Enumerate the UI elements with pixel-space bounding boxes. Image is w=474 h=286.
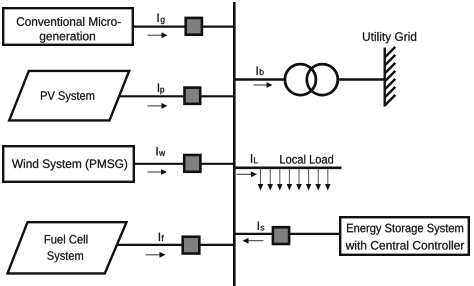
parallelogram PV System xyxy=(9,71,129,121)
transformer T1 (two overlapping circles) xyxy=(285,64,338,95)
wire Is (energy storage to bus) xyxy=(234,233,340,235)
breaker square Is xyxy=(273,227,289,244)
arrow IL xyxy=(237,171,258,177)
label Ib xyxy=(257,67,264,76)
arrow Is (pointing left) xyxy=(243,238,264,244)
label Is xyxy=(258,222,265,231)
label If xyxy=(159,233,164,241)
bus (main vertical AC bus line) xyxy=(233,2,236,286)
wire Ib (bus to transformer) xyxy=(234,78,285,80)
box Wind System (PMSG) xyxy=(3,146,134,182)
parallelogram Fuel Cell System xyxy=(8,222,127,273)
wire row2 (PV to bus) xyxy=(119,95,234,97)
label Ig xyxy=(158,14,165,25)
load arrows (8 downward) xyxy=(258,169,331,191)
arrow Ib xyxy=(254,82,273,88)
arrow If xyxy=(146,252,166,258)
wire transformer to utility grid xyxy=(338,78,384,80)
label Ip xyxy=(158,84,164,95)
breaker square row4 xyxy=(183,237,200,254)
label Local Load xyxy=(280,155,333,164)
label Iw xyxy=(157,147,166,156)
arrow Ip xyxy=(148,103,168,109)
breaker square row3 xyxy=(184,155,200,172)
box Conventional Micro-generation xyxy=(3,8,133,45)
wire row3 (wind to bus) xyxy=(134,163,234,165)
arrow Ig xyxy=(148,32,168,38)
utility grid wall symbol xyxy=(385,47,396,107)
wire row4 (fuel cell to bus) xyxy=(116,244,234,246)
arrow Iw xyxy=(148,169,168,175)
label IL xyxy=(251,154,258,163)
box Energy Storage System with Central Controller xyxy=(340,217,469,255)
breaker square row1 xyxy=(186,18,202,35)
wire row1 (box to bus) xyxy=(133,26,234,28)
label Utility Grid xyxy=(363,32,416,43)
local load tap line xyxy=(234,167,342,170)
breaker square row2 xyxy=(185,88,201,104)
